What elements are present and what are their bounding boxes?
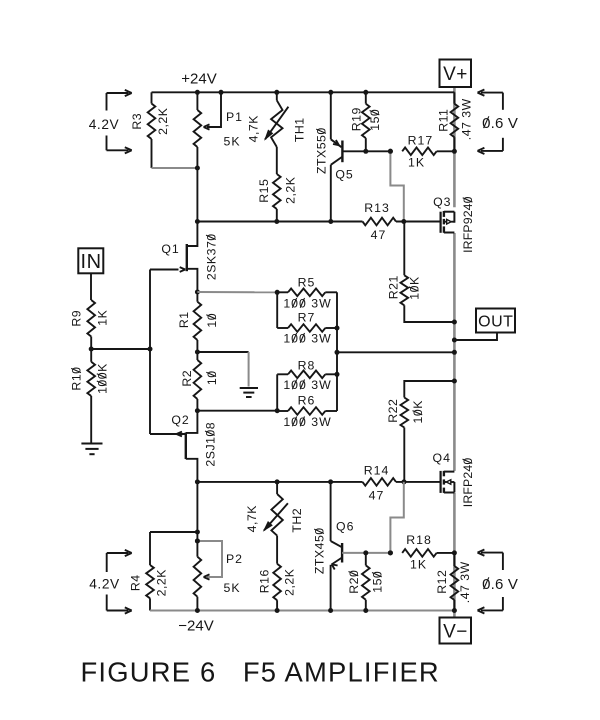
svg-text:R11: R11 [436, 109, 450, 132]
svg-text:.47 3W: .47 3W [459, 98, 473, 140]
svg-text:Q1: Q1 [161, 242, 179, 256]
svg-text:P2: P2 [226, 552, 243, 566]
svg-text:10K: 10K [407, 276, 421, 300]
svg-text:1K: 1K [95, 309, 109, 325]
svg-text:0.6 V: 0.6 V [482, 115, 518, 132]
svg-text:4.2V: 4.2V [89, 576, 120, 591]
svg-text:R21: R21 [386, 275, 400, 299]
svg-text:5K: 5K [223, 581, 240, 595]
svg-text:TH1: TH1 [292, 117, 306, 142]
svg-text:P1: P1 [226, 110, 243, 124]
svg-text:R17: R17 [408, 133, 434, 147]
svg-text:47: 47 [369, 488, 385, 502]
svg-text:2,2K: 2,2K [154, 569, 168, 597]
svg-text:R19: R19 [350, 107, 364, 131]
svg-text:R10: R10 [70, 367, 84, 391]
svg-text:100 3W: 100 3W [283, 331, 331, 345]
svg-text:TH2: TH2 [290, 508, 304, 533]
svg-text:V−: V− [443, 621, 468, 642]
svg-text:R9: R9 [70, 310, 84, 327]
svg-text:150: 150 [370, 571, 384, 593]
svg-text:R13: R13 [364, 201, 390, 215]
svg-text:R5: R5 [298, 275, 316, 289]
svg-text:47: 47 [371, 228, 387, 242]
svg-text:4.2V: 4.2V [89, 117, 120, 132]
svg-text:R15: R15 [257, 179, 271, 203]
svg-text:R22: R22 [386, 399, 400, 423]
svg-text:100 3W: 100 3W [283, 415, 331, 429]
svg-text:OUT: OUT [478, 313, 513, 330]
svg-text:V+: V+ [443, 64, 468, 85]
svg-text:100 3W: 100 3W [283, 296, 331, 310]
svg-text:IRFP240: IRFP240 [461, 458, 475, 508]
svg-text:Q3: Q3 [433, 195, 451, 209]
svg-text:IN: IN [81, 251, 102, 273]
svg-text:2SK370: 2SK370 [204, 233, 218, 280]
svg-text:R3: R3 [130, 113, 144, 130]
svg-text:10K: 10K [411, 400, 425, 424]
svg-text:R8: R8 [298, 358, 316, 372]
svg-text:Q6: Q6 [336, 520, 354, 534]
svg-text:R20: R20 [347, 570, 361, 594]
svg-text:R7: R7 [298, 310, 316, 324]
svg-text:−24V: −24V [178, 617, 213, 634]
svg-text:4,7K: 4,7K [246, 115, 260, 143]
svg-text:R18: R18 [406, 533, 432, 547]
svg-text:R2: R2 [180, 370, 194, 387]
svg-text:R6: R6 [298, 393, 316, 407]
svg-text:ZTX550: ZTX550 [315, 127, 329, 174]
svg-text:Q4: Q4 [433, 451, 451, 465]
svg-text:100 3W: 100 3W [283, 378, 331, 392]
svg-text:0.6 V: 0.6 V [482, 576, 518, 593]
svg-text:ZTX450: ZTX450 [313, 527, 327, 574]
svg-text:2,2K: 2,2K [282, 568, 296, 596]
svg-text:R1: R1 [177, 311, 191, 328]
svg-text:2SJ108: 2SJ108 [203, 422, 217, 467]
svg-text:IRFP9240: IRFP9240 [461, 196, 475, 253]
svg-text:R12: R12 [435, 570, 449, 594]
svg-text:R16: R16 [257, 569, 271, 593]
svg-text:Q2: Q2 [171, 413, 189, 427]
svg-text:150: 150 [368, 109, 382, 131]
svg-text:2,2K: 2,2K [283, 176, 297, 204]
svg-text:.47 3W: .47 3W [458, 561, 472, 603]
svg-text:R14: R14 [364, 463, 390, 477]
svg-text:1K: 1K [408, 155, 425, 169]
svg-text:Q5: Q5 [335, 167, 353, 181]
svg-text:1K: 1K [410, 557, 427, 571]
svg-text:4,7K: 4,7K [245, 505, 259, 533]
svg-text:R4: R4 [128, 574, 142, 591]
svg-text:5K: 5K [223, 134, 240, 148]
svg-text:+24V: +24V [181, 70, 216, 87]
svg-text:FIGURE 6 F5 AMPLIFIER: FIGURE 6 F5 AMPLIFIER [81, 657, 440, 688]
svg-text:100K: 100K [95, 363, 109, 394]
svg-text:2,2K: 2,2K [156, 107, 170, 135]
